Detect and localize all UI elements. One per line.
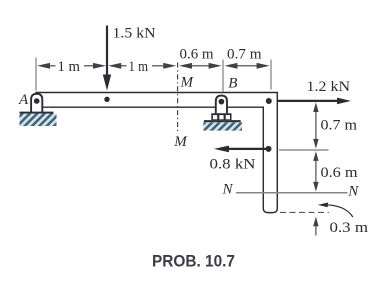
dim 1 m (load to M)	[121, 65, 164, 67]
top dimension line y=65.8	[37, 63, 270, 69]
svg-text:1.2 kN: 1.2 kN	[307, 79, 351, 95]
dim 0.6 m (0.8kN line to N-N)	[315, 159, 317, 183]
force 1.2 kN (right arrow)	[278, 100, 339, 102]
extension line above B	[222, 60, 224, 92]
svg-text:M: M	[180, 74, 195, 90]
svg-text:1 m: 1 m	[129, 59, 149, 75]
right vertical dimension line x=315.9	[313, 102, 318, 235]
svg-text:0.8 kN: 0.8 kN	[210, 157, 256, 173]
ground line B	[204, 120, 241, 122]
roller base B	[211, 113, 231, 120]
svg-text:N: N	[222, 181, 234, 197]
svg-text:0.3 m: 0.3 m	[330, 220, 369, 236]
dashed line at bar bottom	[280, 211, 329, 213]
extension line above A	[35, 58, 37, 91]
dim 0.7 m (force line to 0.8kN line)	[315, 110, 317, 140]
svg-text:M: M	[173, 134, 188, 150]
pin dot B	[219, 99, 225, 105]
support A: pin stirrup	[31, 94, 42, 113]
beam and vertical bar outline (inverted L member)	[36, 93, 277, 213]
dim 0.6 m (M to B)	[191, 65, 211, 67]
dim 0.3 m (up arrow below dashes)	[315, 224, 317, 236]
extension line above bar center	[270, 60, 272, 90]
section line M-M (dash-dot vertical)	[177, 63, 179, 134]
svg-text:0.7 m: 0.7 m	[227, 47, 262, 63]
ground line A	[20, 112, 54, 114]
svg-text:0.6 m: 0.6 m	[321, 165, 358, 181]
pin dot A	[34, 98, 40, 104]
dot at top of bar	[266, 98, 272, 104]
svg-text:B: B	[228, 76, 237, 92]
force 1.5 kN (down arrow)	[106, 26, 108, 78]
support B: pin stirrup on rollers	[216, 96, 227, 114]
curved arrow toward N-N	[322, 205, 353, 217]
section line N-N	[236, 192, 348, 194]
hatching B	[203, 122, 242, 130]
svg-text:A: A	[18, 92, 29, 108]
svg-text:0.7 m: 0.7 m	[321, 118, 358, 134]
svg-text:PROB. 10.7: PROB. 10.7	[152, 253, 235, 271]
dot at load point on beam	[104, 97, 109, 102]
svg-text:1.5 kN: 1.5 kN	[113, 26, 156, 42]
dim 0.7 m (B to bar)	[236, 65, 258, 67]
force 0.8 kN (left arrow)	[228, 148, 269, 150]
svg-text:1 m: 1 m	[58, 59, 81, 75]
hatching A	[20, 114, 57, 126]
dim 1 m (A to load)	[50, 65, 95, 67]
svg-text:0.6 m: 0.6 m	[180, 47, 214, 63]
svg-text:N: N	[347, 184, 359, 200]
dot at 0.8 kN point	[266, 146, 272, 152]
right extension line from 0.8kN level	[279, 149, 329, 151]
